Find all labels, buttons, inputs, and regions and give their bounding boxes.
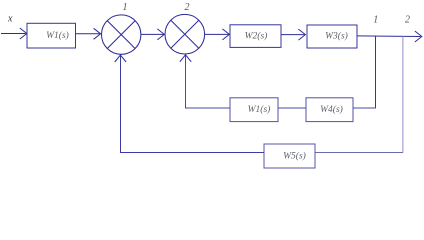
svg-text:W3(s): W3(s): [325, 31, 348, 42]
wire summer 2 to W2: [205, 29, 230, 40]
svg-text:W4(s): W4(s): [320, 104, 343, 115]
wire bottom feedback: node2 corner to W6: [315, 152, 403, 154]
svg-text:2: 2: [405, 15, 410, 26]
wire summer 1 to summer 2: [141, 29, 164, 40]
svg-text:1: 1: [123, 2, 128, 13]
wire between W5 and W4: [278, 107, 306, 109]
wire node 1 down: [375, 36, 377, 108]
wire feedback mid: node1 corner to W4: [353, 107, 376, 109]
wire feedback mid left + up into summer 2: [180, 55, 230, 108]
svg-text:W1(s): W1(s): [46, 30, 69, 41]
svg-text:x: x: [7, 14, 13, 25]
svg-text:W1(s): W1(s): [248, 104, 271, 115]
summing junction 1: [102, 15, 141, 54]
svg-text:2: 2: [185, 2, 190, 13]
wire node 2 down: [402, 36, 404, 152]
svg-text:W5(s): W5(s): [283, 150, 306, 161]
wire W1 to summer 1: [76, 28, 101, 39]
block W4: [306, 98, 353, 122]
wire W3 to output: [357, 31, 422, 42]
wire input to W1: [1, 28, 27, 39]
block W1: [27, 23, 76, 48]
wire bottom feedback left + up into summer 1: [115, 55, 264, 153]
block W3: [307, 25, 357, 48]
svg-text:W2(s): W2(s): [245, 30, 268, 41]
svg-text:1: 1: [373, 15, 378, 26]
wire W2 to W3: [281, 29, 305, 40]
block W5 (outer feedback): [264, 144, 315, 168]
summing junction 2: [165, 14, 205, 54]
block W2: [230, 25, 281, 48]
block W1a (inner feedback): [230, 98, 278, 122]
